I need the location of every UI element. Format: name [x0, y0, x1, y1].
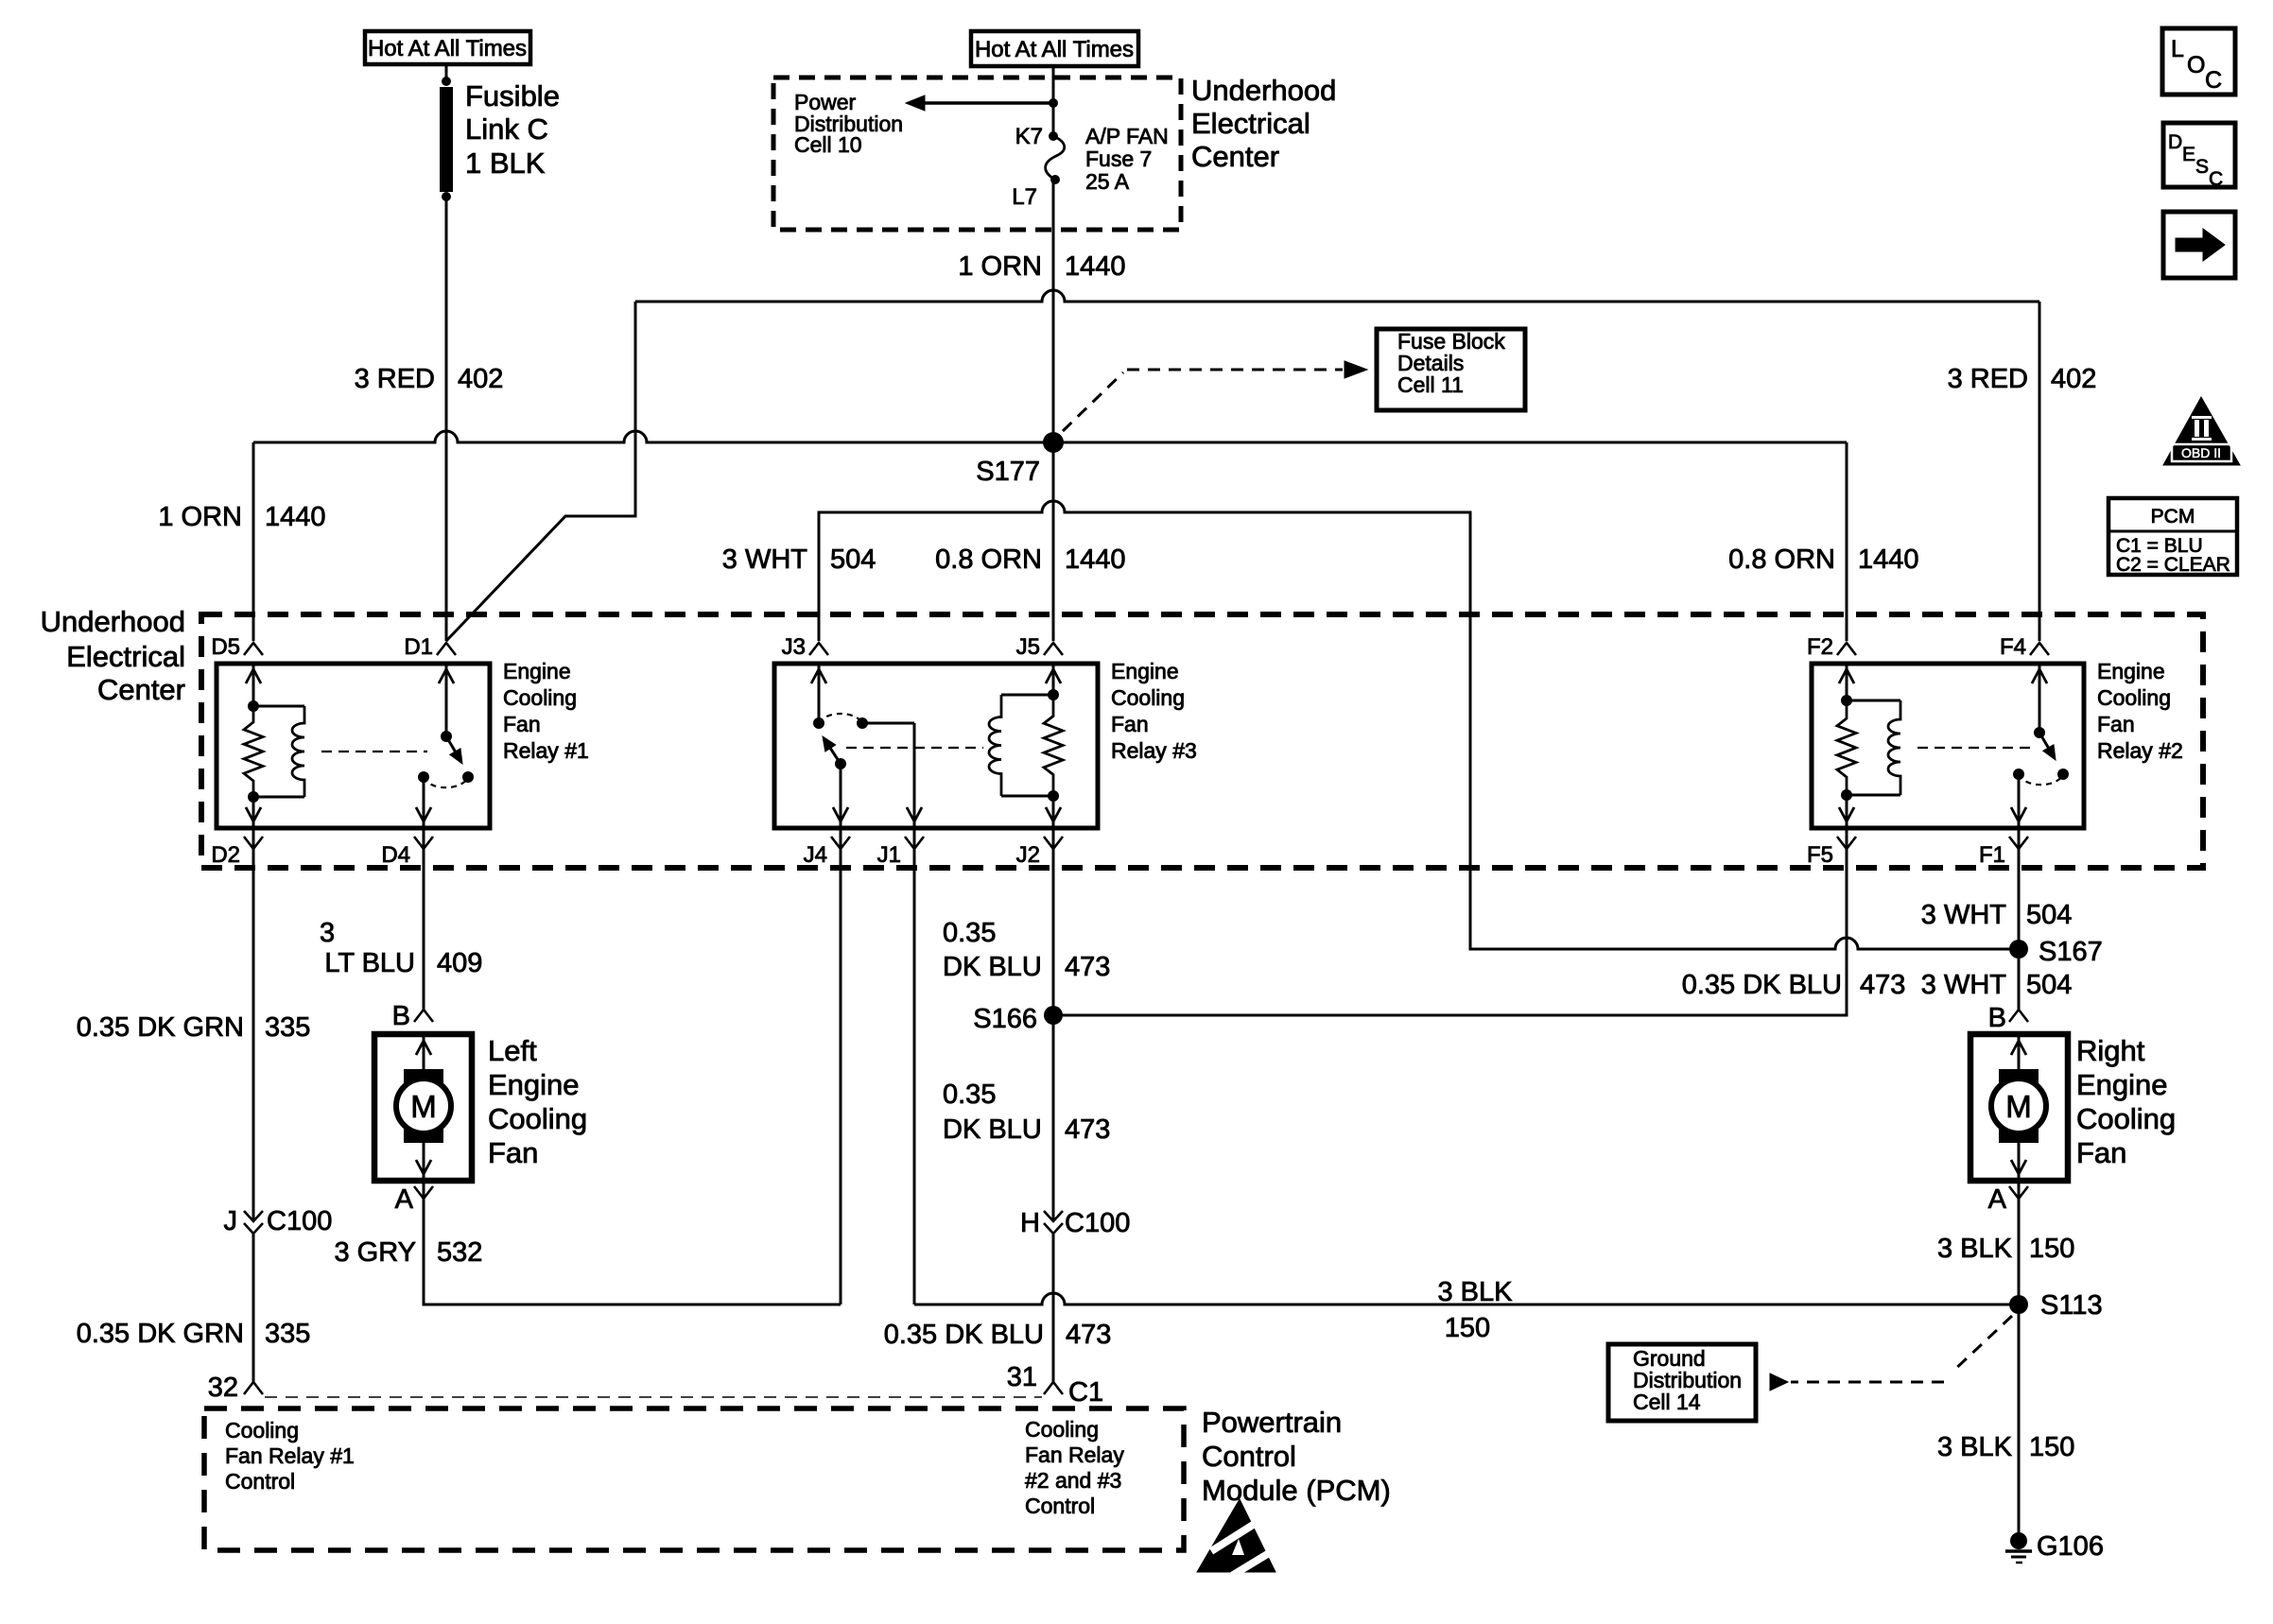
svg-text:Electrical: Electrical [1191, 107, 1310, 140]
svg-text:J3: J3 [782, 634, 806, 660]
svg-text:3 BLK: 3 BLK [1937, 1432, 2013, 1462]
svg-text:3 GRY: 3 GRY [334, 1237, 416, 1268]
svg-text:1440: 1440 [1065, 544, 1126, 575]
svg-text:Engine: Engine [2097, 659, 2165, 683]
pin J3 [809, 643, 828, 655]
relay K1 Engine Cooling Fan Relay #1 box [217, 664, 490, 828]
svg-text:F2: F2 [1807, 634, 1833, 660]
svg-text:31: 31 [1007, 1362, 1037, 1392]
svg-text:0.8 ORN: 0.8 ORN [1728, 544, 1835, 575]
wire down to F2 (0.8 ORN 1440) [1846, 442, 1848, 641]
svg-text:LT BLU: LT BLU [324, 948, 415, 978]
svg-text:335: 335 [265, 1319, 310, 1349]
svg-text:J2: J2 [1016, 842, 1040, 868]
svg-text:Relay #3: Relay #3 [1111, 738, 1197, 763]
relay 3 dashed actuator link [846, 747, 983, 749]
ESD static sensitive symbol [1197, 1499, 1278, 1577]
svg-text:S166: S166 [973, 1004, 1037, 1034]
connector C100 pin H [1044, 1211, 1063, 1221]
pin A left fan [414, 1186, 433, 1199]
svg-text:A: A [395, 1184, 414, 1215]
wire hot to fuse K7 [1052, 66, 1055, 136]
ground G106 [2010, 1532, 2027, 1549]
svg-text:L7: L7 [1012, 184, 1037, 210]
coil relay1 [292, 706, 304, 797]
relay 1 switch [445, 664, 448, 736]
svg-text:S167: S167 [2039, 937, 2103, 967]
relay K2 Engine Cooling Fan Relay #2 box [1812, 664, 2084, 828]
fuse A/P FAN Fuse 7 25A [1049, 131, 1058, 141]
svg-text:OBD II: OBD II [2181, 445, 2221, 460]
pin F1 [2009, 837, 2028, 849]
relay 1 coil branch wires [252, 664, 255, 706]
svg-text:Control: Control [1202, 1440, 1296, 1473]
svg-text:Module (PCM): Module (PCM) [1202, 1474, 1391, 1507]
svg-text:Cooling: Cooling [2097, 685, 2171, 710]
svg-text:402: 402 [2051, 364, 2096, 394]
connector C100 pin J [244, 1211, 263, 1221]
wire J2 to S166 (0.35 DK BLU 473) [1052, 828, 1055, 1220]
pin B left fan [414, 1010, 433, 1022]
svg-text:0.35 DK BLU: 0.35 DK BLU [1682, 970, 1842, 1000]
svg-text:504: 504 [2026, 970, 2072, 1000]
svg-text:Engine: Engine [1111, 659, 1179, 683]
svg-text:532: 532 [437, 1237, 482, 1268]
wire ORN bus y=468 with hops at x=472,672 [253, 431, 1847, 442]
node Hot At All Times (left) [365, 31, 530, 64]
svg-text:Control: Control [225, 1469, 295, 1494]
wire fuse L7 down to S177 (1 ORN 1440) [1052, 180, 1055, 442]
wire left fan A to J4 (3 GRY 532) [424, 1181, 841, 1304]
svg-text:Fan: Fan [503, 712, 541, 736]
svg-text:F5: F5 [1807, 842, 1833, 868]
svg-text:402: 402 [458, 364, 503, 394]
svg-text:Cell 11: Cell 11 [1397, 372, 1464, 397]
svg-text:Link C: Link C [465, 112, 548, 146]
svg-text:D: D [2168, 131, 2182, 153]
pin F5 [1837, 837, 1856, 849]
svg-text:3 WHT: 3 WHT [722, 544, 808, 575]
svg-text:473: 473 [1066, 1320, 1111, 1350]
svg-text:B: B [1988, 1003, 2006, 1033]
svg-text:473: 473 [1860, 970, 1905, 1000]
svg-text:3: 3 [320, 918, 335, 948]
node S113 [2009, 1295, 2028, 1314]
svg-text:S: S [2195, 156, 2209, 178]
svg-text:25 A: 25 A [1085, 169, 1130, 194]
svg-text:PCM: PCM [2151, 506, 2195, 527]
svg-text:A/P FAN: A/P FAN [1085, 124, 1169, 148]
svg-text:0.8 ORN: 0.8 ORN [935, 544, 1042, 575]
svg-text:Cooling: Cooling [1111, 685, 1185, 710]
svg-text:473: 473 [1065, 952, 1110, 982]
relay 3 switch [818, 664, 821, 723]
svg-text:1 BLK: 1 BLK [465, 147, 546, 180]
svg-text:F1: F1 [1979, 842, 2005, 868]
resistor relay3 [1044, 695, 1063, 796]
icon LOC box [2162, 28, 2235, 95]
relay 1 dashed actuator link [321, 751, 427, 752]
svg-text:C1: C1 [1068, 1377, 1103, 1408]
node S166 [1044, 1006, 1063, 1025]
svg-text:Engine: Engine [503, 659, 571, 683]
svg-text:O: O [2187, 52, 2205, 78]
pin D2 [244, 837, 263, 849]
node S177 [1043, 432, 1064, 453]
svg-text:473: 473 [1065, 1114, 1110, 1145]
svg-text:32: 32 [208, 1373, 238, 1403]
svg-text:0.35 DK BLU: 0.35 DK BLU [884, 1320, 1044, 1350]
resistor relay1 [244, 706, 263, 797]
svg-text:F4: F4 [2000, 634, 2026, 660]
svg-text:Fan: Fan [1111, 712, 1149, 736]
svg-text:0.35: 0.35 [943, 1080, 996, 1110]
svg-text:J: J [224, 1206, 238, 1236]
node Fuse Block Details Cell 11 box [1377, 329, 1525, 410]
svg-text:D5: D5 [211, 634, 240, 660]
svg-text:L: L [2171, 36, 2184, 62]
svg-text:Electrical: Electrical [66, 640, 185, 673]
wire down to D5 (1 ORN 1440) [252, 442, 255, 641]
svg-text:3 RED: 3 RED [355, 364, 435, 394]
pin D4 [414, 837, 433, 849]
svg-text:3 RED: 3 RED [1948, 364, 2028, 394]
icon DESC box [2163, 123, 2235, 187]
svg-text:Powertrain: Powertrain [1202, 1406, 1342, 1439]
svg-text:Fan: Fan [488, 1136, 538, 1169]
motor M right engine cooling fan box [1970, 1034, 2068, 1181]
fusible link F/L C [442, 77, 451, 86]
svg-text:Cell 10: Cell 10 [794, 132, 862, 157]
svg-text:Fan Relay #1: Fan Relay #1 [225, 1443, 355, 1468]
wire thin dashed C1 connector line 32-31 [265, 1396, 1042, 1398]
wire 3 WHT 504 from J3 to S167 [819, 501, 2019, 949]
svg-text:Center: Center [1191, 140, 1279, 173]
motor M left symbol [404, 1069, 443, 1087]
svg-text:Right: Right [2076, 1034, 2145, 1067]
svg-text:Cooling: Cooling [503, 685, 577, 710]
underhood electrical center top box (dashed) [773, 78, 1181, 230]
svg-text:D1: D1 [404, 634, 433, 660]
svg-text:504: 504 [2026, 900, 2072, 930]
svg-text:#2 and #3: #2 and #3 [1025, 1468, 1121, 1493]
svg-text:DK BLU: DK BLU [943, 1114, 1042, 1145]
svg-text:S113: S113 [2040, 1290, 2103, 1321]
svg-text:3 BLK: 3 BLK [1937, 1234, 2013, 1264]
svg-text:Cooling: Cooling [225, 1418, 299, 1443]
svg-text:0.35: 0.35 [943, 918, 996, 948]
svg-text:Control: Control [1025, 1494, 1095, 1518]
wire fusible link to D1 (3 RED 402) [445, 64, 448, 81]
svg-text:1440: 1440 [1065, 251, 1126, 282]
wire right fan A to S113 (3 BLK 150) [2018, 1181, 2021, 1304]
relay 2 dashed actuator link [1917, 747, 2031, 749]
svg-text:DK BLU: DK BLU [943, 952, 1042, 982]
wire dashed pointer to ground distribution [1952, 1316, 2012, 1373]
svg-text:Hot At All Times: Hot At All Times [975, 37, 1134, 62]
svg-text:Center: Center [97, 673, 185, 706]
svg-text:Left: Left [488, 1034, 537, 1067]
svg-text:1 ORN: 1 ORN [158, 502, 242, 532]
svg-text:Relay #2: Relay #2 [2097, 738, 2183, 763]
svg-text:3 BLK: 3 BLK [1438, 1277, 1514, 1307]
svg-text:409: 409 [437, 948, 482, 978]
svg-text:B: B [392, 1001, 410, 1031]
svg-text:1 ORN: 1 ORN [958, 251, 1042, 282]
svg-text:Cooling: Cooling [1025, 1417, 1099, 1442]
svg-text:C100: C100 [267, 1206, 332, 1236]
resistor relay2 [1837, 700, 1856, 795]
wire D2 to PCM 32 (0.35 DK GRN 335) [252, 828, 255, 1220]
svg-text:0.35 DK GRN: 0.35 DK GRN [77, 1319, 244, 1349]
pin J2 [1044, 837, 1063, 849]
svg-text:Fuse 7: Fuse 7 [1085, 147, 1152, 171]
pin D1 [437, 643, 456, 655]
wire 3 RED down to F4 [2039, 302, 2041, 641]
svg-text:D4: D4 [381, 842, 410, 868]
svg-text:C2 = CLEAR: C2 = CLEAR [2116, 554, 2230, 576]
svg-text:E: E [2182, 144, 2195, 165]
PCM box (dashed) Powertrain Control Module [204, 1408, 1184, 1550]
svg-text:Fusible: Fusible [465, 79, 560, 112]
wire D4 to left fan B (3 LT BLU 409) [423, 828, 425, 1010]
svg-text:G106: G106 [2037, 1531, 2104, 1562]
svg-text:H: H [1020, 1208, 1040, 1238]
svg-text:Engine: Engine [488, 1068, 580, 1101]
motor M right symbol [1999, 1069, 2039, 1087]
underhood electrical center main box (dashed) [201, 614, 2203, 868]
svg-text:Fan Relay: Fan Relay [1025, 1443, 1124, 1467]
pin 32 at PCM [244, 1382, 263, 1394]
node S167 [2009, 940, 2028, 959]
svg-text:C: C [2205, 67, 2222, 94]
svg-text:Hot At All Times: Hot At All Times [368, 36, 527, 61]
svg-text:C100: C100 [1065, 1208, 1130, 1238]
svg-text:504: 504 [830, 544, 876, 575]
wire corner down to D1 diagonal [446, 302, 635, 641]
svg-text:Fan: Fan [2076, 1136, 2126, 1169]
svg-text:1440: 1440 [265, 502, 326, 532]
svg-text:Underhood: Underhood [41, 605, 185, 638]
icon PCM connector legend box [2108, 498, 2237, 575]
pin F4 [2030, 643, 2049, 655]
svg-text:K7: K7 [1015, 124, 1043, 149]
svg-text:150: 150 [1445, 1313, 1490, 1343]
pin F2 [1837, 643, 1856, 655]
svg-text:3 WHT: 3 WHT [1921, 970, 2007, 1000]
relay 2 switch [2039, 664, 2041, 733]
svg-text:0.35 DK GRN: 0.35 DK GRN [77, 1012, 244, 1043]
svg-text:M: M [410, 1089, 437, 1124]
motor M left engine cooling fan box [374, 1034, 472, 1181]
svg-text:3 WHT: 3 WHT [1921, 900, 2007, 930]
svg-text:Fan: Fan [2097, 712, 2135, 736]
wire J1 to S113 (3 BLK 150) with hop [913, 828, 916, 1304]
wire 3 RED 402 bus to F4 with hop over ORN wire [635, 290, 2039, 302]
wire dashed pointer to fuse block details [1063, 372, 1123, 431]
svg-text:A: A [1988, 1184, 2007, 1215]
relay K3 Engine Cooling Fan Relay #3 box [774, 664, 1098, 828]
wire F1 to right fan B (3 WHT 504) [2018, 828, 2021, 1010]
svg-text:150: 150 [2029, 1234, 2074, 1264]
svg-text:1440: 1440 [1858, 544, 1919, 575]
pin A right fan [2009, 1186, 2028, 1199]
wire S177 down to J5 (0.8 ORN 1440) [1052, 442, 1055, 641]
pin 31 / C1 at PCM [1044, 1382, 1063, 1394]
svg-text:Relay #1: Relay #1 [503, 738, 589, 763]
svg-text:Cell 14: Cell 14 [1633, 1390, 1701, 1414]
node Hot At All Times (right) [971, 31, 1138, 66]
svg-text:S177: S177 [976, 457, 1040, 487]
pin J5 [1044, 643, 1063, 655]
coil relay3 [989, 695, 1001, 796]
svg-text:Engine: Engine [2076, 1068, 2168, 1101]
pin B right fan [2009, 1010, 2028, 1022]
svg-text:J4: J4 [804, 842, 827, 868]
svg-text:Underhood: Underhood [1191, 74, 1336, 107]
relay 2 coil branch [1846, 664, 1848, 700]
svg-text:J1: J1 [877, 842, 901, 868]
wire F5 to S166 (0.35 DK BLU 473) [1053, 828, 1847, 1015]
svg-text:M: M [2005, 1089, 2032, 1124]
svg-text:335: 335 [265, 1012, 310, 1043]
svg-text:D2: D2 [211, 842, 240, 868]
coil relay2 [1888, 700, 1900, 795]
wire S113 to G106 (3 BLK 150) [2018, 1304, 2021, 1535]
svg-text:C: C [2209, 168, 2223, 190]
icon arrow box [2163, 212, 2235, 278]
relay 3 coil branch [1052, 664, 1055, 695]
svg-text:J5: J5 [1016, 634, 1040, 660]
svg-text:Cooling: Cooling [488, 1102, 587, 1135]
wire power distribution arrow [1049, 98, 1058, 108]
svg-text:Cooling: Cooling [2076, 1102, 2176, 1135]
svg-text:150: 150 [2029, 1432, 2074, 1462]
node Ground Distribution Cell 14 box [1608, 1344, 1756, 1421]
pin D5 [244, 643, 263, 655]
icon OBD II triangle [2163, 397, 2240, 465]
pin J1 [905, 837, 924, 849]
pin J4 [831, 837, 850, 849]
